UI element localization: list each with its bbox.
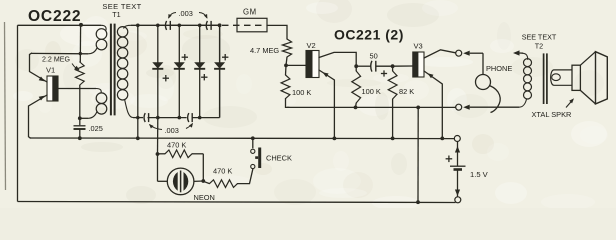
svg-text:V3: V3 — [414, 42, 423, 51]
terminal jack bottom circle — [456, 104, 462, 110]
wire bottom rail — [18, 202, 456, 203]
wire dashed into GM box — [222, 24, 263, 26]
wire 100K1 bottom to rail-1 — [286, 99, 290, 108]
node GM rail junction — [218, 23, 222, 27]
svg-text:T1: T1 — [112, 10, 120, 19]
capacitor 50 — [356, 65, 371, 67]
resistor 2.2MEG — [75, 62, 84, 85]
svg-text:4.7 MEG: 4.7 MEG — [250, 46, 279, 55]
svg-text:100 K: 100 K — [362, 87, 381, 96]
diode D3 — [199, 25, 201, 117]
resistor 470K second — [210, 180, 238, 188]
wire downlink x418 — [417, 107, 419, 202]
svg-text:NEON: NEON — [194, 193, 215, 202]
svg-text:50: 50 — [370, 51, 378, 60]
wire col4 corner — [219, 25, 221, 117]
plug arrow T2 top — [513, 50, 520, 55]
resistor 470K first — [165, 150, 192, 158]
svg-text:470 K: 470 K — [213, 167, 232, 176]
svg-text:GM: GM — [243, 8, 257, 17]
transformer T1 lower primary winding — [96, 89, 101, 94]
svg-text:OC221 (2): OC221 (2) — [334, 27, 404, 43]
node D2 bottom — [178, 116, 182, 120]
node coupling node left — [354, 64, 358, 68]
svg-text:OC222: OC222 — [28, 8, 81, 25]
wire V2 emitter lead — [319, 70, 334, 138]
svg-text:CHECK: CHECK — [266, 154, 292, 163]
label plus sign D2 — [182, 56, 188, 58]
resistor 100K first — [285, 65, 288, 75]
wire phone drop — [482, 53, 484, 74]
wire lower cap rail — [133, 117, 143, 119]
wire phone cord — [490, 86, 501, 113]
terminal jack top circle — [456, 50, 462, 56]
arrow to cap bot-2 — [186, 124, 193, 129]
arrow to cap top-1 — [169, 13, 177, 19]
node V2 base node — [284, 64, 288, 68]
diode D2 — [178, 25, 180, 117]
node D2 top — [178, 24, 182, 28]
plug arrow phone top — [463, 51, 470, 56]
wire check to 470K2 — [238, 169, 253, 183]
resistor 4.7 MEG — [282, 39, 291, 57]
capacitor .025 — [79, 118, 81, 125]
svg-text:XTAL SPKR: XTAL SPKR — [532, 110, 572, 119]
switch CHECK — [252, 138, 254, 148]
svg-text:.003: .003 — [165, 126, 179, 135]
node rail-1 downlink junction — [416, 106, 420, 110]
node top-rail junction x81 — [79, 23, 83, 27]
transistor V1 — [47, 76, 58, 101]
transistor V3 — [413, 52, 424, 77]
svg-text:SEE TEXT: SEE TEXT — [522, 33, 557, 42]
svg-text:.025: .025 — [89, 124, 103, 133]
label plus battery — [446, 158, 453, 160]
node collector-line junction x81 — [79, 52, 82, 55]
label plus sign D4 — [222, 56, 228, 58]
lamp NEON — [158, 180, 168, 182]
wire diode column A x137.8 — [137, 25, 139, 117]
wire left rail — [17, 25, 19, 201]
transformer T1 core — [110, 24, 112, 116]
node D1 top — [156, 24, 160, 28]
transistor V2 — [306, 51, 319, 78]
node check rail-2 junction — [251, 136, 255, 140]
scan edge artifact — [5, 22, 6, 190]
node coupling node right — [391, 64, 395, 68]
svg-text:2.2 MEG: 2.2 MEG — [42, 56, 70, 64]
terminal battery top circle — [454, 136, 460, 142]
plug arrow T2 bottom — [463, 105, 470, 110]
wire V3 collector lead — [424, 50, 456, 58]
wire V1 base line — [58, 88, 96, 90]
label plus sign 50 — [381, 73, 387, 75]
node cap-rail col A junction — [136, 116, 139, 119]
svg-text:V2: V2 — [307, 41, 316, 50]
svg-text:SEE TEXT: SEE TEXT — [102, 2, 141, 11]
node .025 top junction — [78, 116, 82, 120]
wire V1 collector lead — [30, 53, 48, 82]
capacitor C-bot-2 .003 — [188, 113, 189, 122]
svg-text:V1: V1 — [46, 66, 55, 75]
wire rail-2 (battery positive rail) — [30, 137, 456, 140]
wire base column down — [79, 89, 81, 119]
arrow to speaker — [566, 100, 573, 108]
label plus sign D1 — [163, 77, 169, 79]
arrow to cap bot-1 — [150, 125, 163, 130]
wire top rail secondary section — [131, 24, 220, 26]
speaker XTAL SPKR — [572, 65, 580, 90]
diode D4 — [219, 25, 221, 117]
node D3 bottom — [198, 116, 202, 120]
svg-text:1.5 V: 1.5 V — [470, 170, 489, 179]
node 470K1 left junction — [156, 152, 160, 156]
wire V3 emitter lead — [424, 71, 442, 138]
svg-text:.003: .003 — [179, 9, 193, 18]
arrow to cap top-2 — [199, 13, 207, 19]
diode D1 — [157, 25, 159, 117]
wire V3 base lead — [393, 65, 413, 67]
earphone PHONE — [476, 75, 491, 90]
transformer T2 primary winding — [523, 53, 528, 60]
transformer T2 secondary loop — [551, 70, 572, 85]
node V3 emitter rail-2 junction — [440, 137, 444, 141]
wire left column to cap rail — [157, 118, 159, 154]
svg-text:PHONE: PHONE — [486, 64, 512, 73]
wire V1 collector line to T1 — [31, 52, 88, 54]
node 100K2 bottom junction — [354, 106, 358, 110]
wire top rail left section — [18, 24, 102, 26]
svg-text:470 K: 470 K — [167, 141, 186, 150]
svg-text:82 K: 82 K — [399, 87, 414, 96]
wire V2 base lead — [286, 64, 306, 66]
label plus sign D3 — [201, 76, 207, 78]
wire from T1 lower primary bottom — [80, 117, 88, 119]
svg-text:100 K: 100 K — [292, 88, 311, 97]
capacitor C-top-2 .003 — [206, 21, 207, 30]
node neon right junction — [201, 179, 205, 183]
capacitor C-bot-1 .003 — [144, 113, 145, 122]
transformer T1 secondary winding — [124, 25, 131, 28]
resistor 100K second — [355, 66, 357, 71]
wire V1 emitter lead — [29, 95, 48, 138]
wire V2 collector lead — [319, 52, 356, 66]
node .025 bottom junction — [78, 136, 82, 140]
wire neon-470K1 right vertical — [202, 154, 204, 181]
meter GM box — [237, 18, 267, 32]
svg-text:T2: T2 — [535, 42, 543, 51]
node D4 top — [218, 24, 222, 28]
node downlink bottom junction — [416, 200, 420, 204]
wire GM to 4.7MEG — [267, 25, 287, 39]
wire 470K2 to neon — [203, 181, 209, 183]
battery 1.5V — [457, 142, 459, 166]
capacitor C-top-1 .003 — [165, 21, 166, 30]
node 82K rail-2 junction — [391, 137, 395, 141]
resistor 82K — [392, 66, 394, 71]
transformer T2 core — [543, 53, 545, 104]
wire vertical column x80 from top rail — [79, 25, 81, 62]
node D3 top — [198, 24, 202, 28]
node D1 bottom — [156, 116, 160, 120]
node V2 emitter rail-2 junction — [333, 137, 337, 141]
wire rail-1 (emitter/output rail) — [287, 106, 456, 108]
terminal battery bottom circle — [455, 197, 461, 203]
transformer T1 upper primary winding — [101, 25, 106, 30]
